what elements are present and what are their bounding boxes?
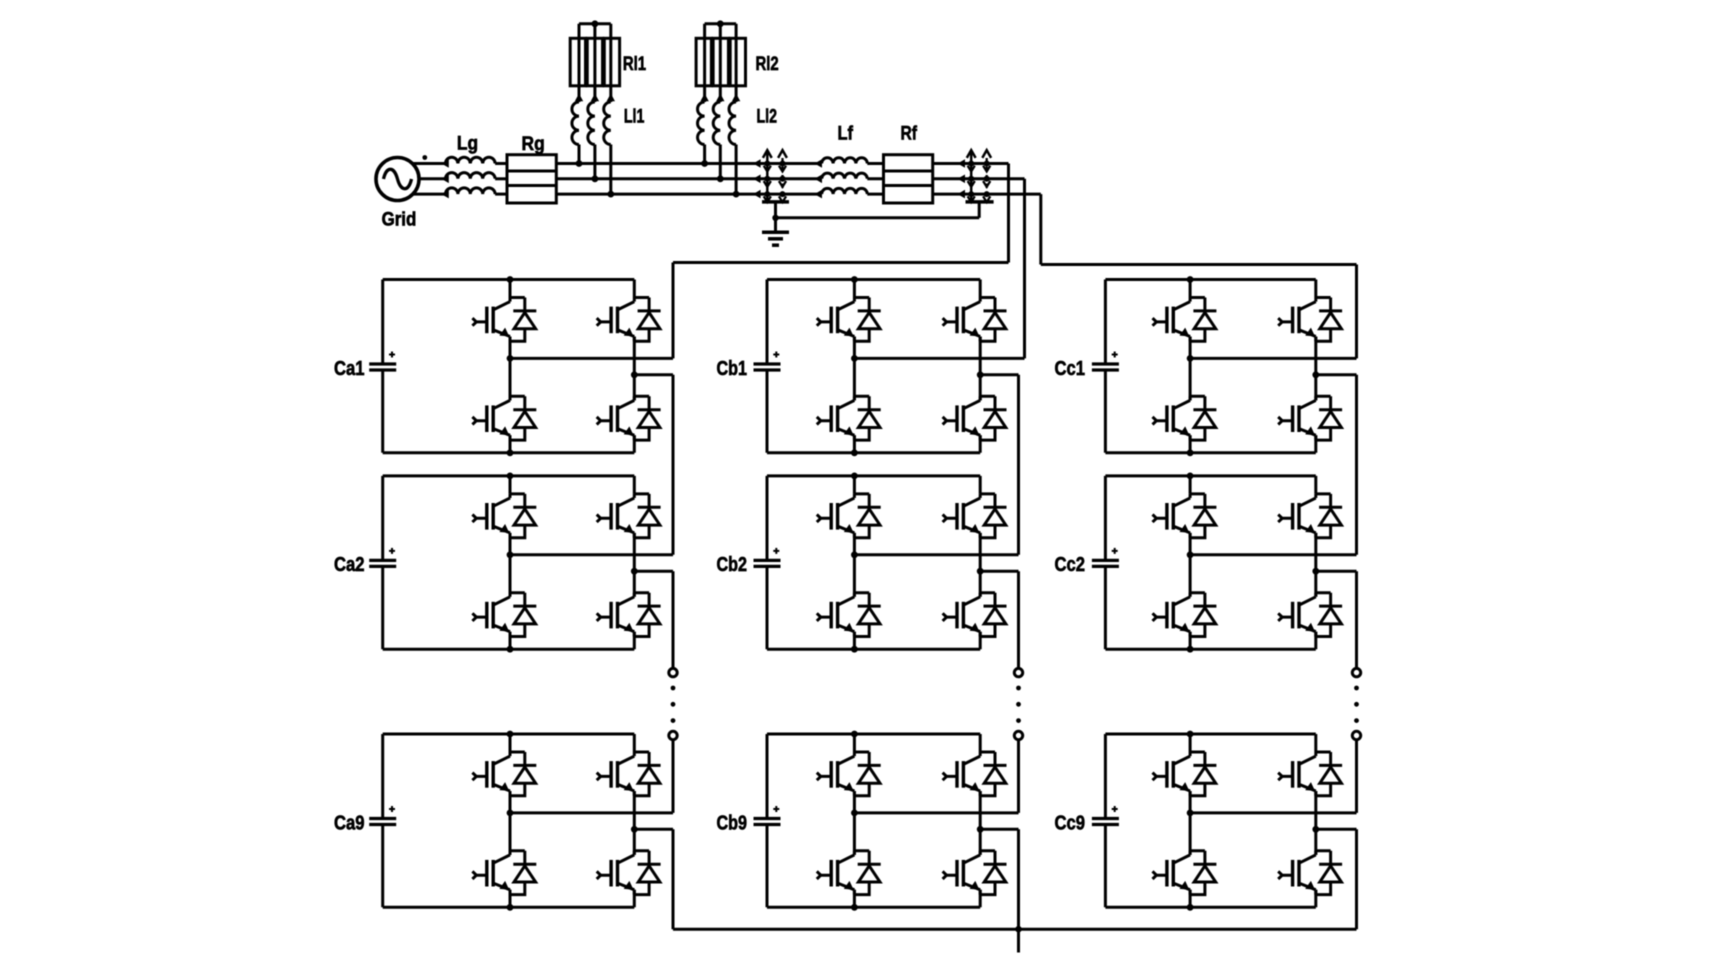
svg-text:Cb9: Cb9 [717,811,748,834]
svg-text:Ll1: Ll1 [624,105,645,127]
svg-text:Rg: Rg [522,133,545,155]
svg-text:Rl2: Rl2 [756,53,779,75]
svg-text:Lg: Lg [457,132,478,154]
svg-text:Grid: Grid [382,209,417,231]
svg-text:Rf: Rf [901,123,918,145]
svg-text:Cc9: Cc9 [1055,811,1086,834]
svg-text:Ca9: Ca9 [334,811,365,834]
svg-text:Ca1: Ca1 [334,357,365,380]
svg-text:Rl1: Rl1 [623,53,646,75]
svg-text:Cb2: Cb2 [717,553,748,576]
svg-text:Cc2: Cc2 [1055,553,1086,576]
svg-text:Lf: Lf [838,123,854,145]
svg-text:Cc1: Cc1 [1055,357,1086,380]
svg-text:Cb1: Cb1 [717,357,748,380]
svg-text:Ca2: Ca2 [334,553,365,576]
svg-text:Ll2: Ll2 [757,105,778,127]
